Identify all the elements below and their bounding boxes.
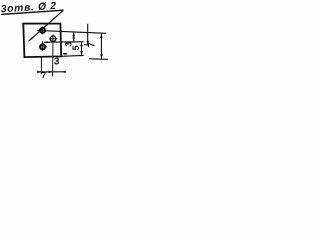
leader line to hole xyxy=(28,10,63,41)
dimension line V4 xyxy=(100,34,102,59)
bottom edge extension ED to right dims xyxy=(61,54,83,57)
hole A vertical centerline xyxy=(42,27,44,35)
hole B vertical centerline xyxy=(42,41,44,51)
svg-text:3: 3 xyxy=(54,56,60,67)
hole C (right, Ø2) xyxy=(50,36,56,42)
svg-text:5: 5 xyxy=(71,45,81,50)
hole C horizontal centerline xyxy=(49,38,58,40)
hole A horizontal centerline + extension line EA to right dims xyxy=(38,30,107,33)
plate outline xyxy=(23,24,61,58)
hole C vertical centerline + extension below plate xyxy=(52,35,54,77)
hole B (bottom-left, Ø2) xyxy=(40,44,45,49)
far-right lower extension line EE xyxy=(89,58,108,61)
hole B extension line below plate xyxy=(40,56,42,74)
svg-text:7: 7 xyxy=(41,70,46,80)
extension stub EB2 under V3 arrow xyxy=(84,44,89,46)
leader shelf (underline) xyxy=(1,10,64,14)
dimension line V1 (3) xyxy=(73,32,75,41)
small arrow at EB left end xyxy=(44,41,48,43)
leader arrowhead xyxy=(28,37,33,41)
svg-text:7: 7 xyxy=(86,42,96,47)
dimension line V3 (7) xyxy=(87,24,89,45)
dimension line V2 (5) xyxy=(81,42,83,56)
D arrow at right-edge ext (tip left) xyxy=(62,71,66,74)
D arrow at hole-C ext (tip right) xyxy=(49,71,53,74)
bottom dimension line D xyxy=(37,71,66,73)
extension line EB (hole B level, to right dims) xyxy=(44,41,84,43)
hole B horizontal centerline xyxy=(39,46,47,48)
hole A (top-left, Ø2) xyxy=(40,28,45,33)
small ink smudge above ED xyxy=(63,53,66,55)
D arrow at hole-B ext (tip right) xyxy=(37,71,41,74)
